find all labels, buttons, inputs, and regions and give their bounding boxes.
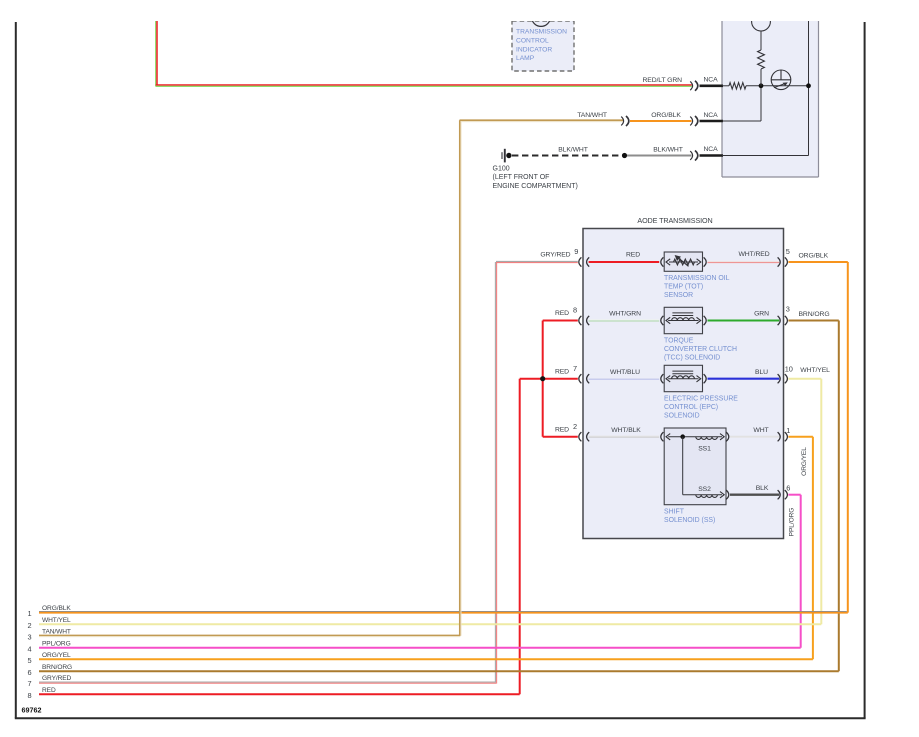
svg-text:SOLENOID: SOLENOID xyxy=(664,413,700,420)
svg-text:BLK/WHT: BLK/WHT xyxy=(653,147,683,154)
svg-text:2: 2 xyxy=(573,422,577,431)
svg-text:5: 5 xyxy=(27,656,31,665)
svg-text:INDICATOR: INDICATOR xyxy=(516,46,552,53)
svg-text:WHT/YEL: WHT/YEL xyxy=(42,617,71,624)
svg-text:WHT/YEL: WHT/YEL xyxy=(800,367,830,374)
svg-text:WHT/BLU: WHT/BLU xyxy=(610,369,640,376)
svg-text:10: 10 xyxy=(785,365,793,374)
svg-text:2: 2 xyxy=(27,621,31,630)
svg-text:GRY/RED: GRY/RED xyxy=(42,675,72,682)
svg-text:NCA: NCA xyxy=(704,77,719,84)
svg-text:1: 1 xyxy=(27,609,31,618)
svg-text:(TCC) SOLENOID: (TCC) SOLENOID xyxy=(664,355,720,362)
svg-text:CONTROL: CONTROL xyxy=(516,38,549,45)
svg-text:6: 6 xyxy=(27,668,31,677)
svg-text:7: 7 xyxy=(573,364,577,373)
svg-text:ORG/BLK: ORG/BLK xyxy=(799,253,829,260)
svg-text:ELECTRIC PRESSURE: ELECTRIC PRESSURE xyxy=(664,396,738,403)
svg-text:RED: RED xyxy=(626,252,640,259)
svg-text:8: 8 xyxy=(27,691,31,700)
svg-text:GRY/RED: GRY/RED xyxy=(540,252,570,259)
svg-text:TAN/WHT: TAN/WHT xyxy=(577,112,607,119)
svg-text:ORG/BLK: ORG/BLK xyxy=(42,605,71,612)
svg-text:BLU: BLU xyxy=(755,369,768,376)
svg-text:ORG/YEL: ORG/YEL xyxy=(42,652,71,659)
svg-text:BLK/WHT: BLK/WHT xyxy=(558,147,588,154)
svg-text:TORQUE: TORQUE xyxy=(664,337,694,344)
svg-text:5: 5 xyxy=(786,247,790,256)
svg-text:1: 1 xyxy=(786,426,790,435)
svg-text:AODE TRANSMISSION: AODE TRANSMISSION xyxy=(637,216,712,225)
svg-text:7: 7 xyxy=(27,679,31,688)
svg-text:ENGINE COMPARTMENT): ENGINE COMPARTMENT) xyxy=(493,183,578,190)
svg-text:WHT/RED: WHT/RED xyxy=(738,251,769,258)
svg-text:NCA: NCA xyxy=(704,146,719,153)
svg-text:TAN/WHT: TAN/WHT xyxy=(42,628,71,635)
svg-text:GRN: GRN xyxy=(754,311,769,318)
svg-text:SS1: SS1 xyxy=(698,445,711,452)
svg-text:CONVERTER CLUTCH: CONVERTER CLUTCH xyxy=(664,346,737,353)
svg-text:TRANSMISSION: TRANSMISSION xyxy=(516,29,567,36)
svg-text:LAMP: LAMP xyxy=(516,55,535,62)
svg-text:(LEFT FRONT OF: (LEFT FRONT OF xyxy=(493,174,550,181)
svg-text:4: 4 xyxy=(27,644,31,653)
svg-text:NCA: NCA xyxy=(704,112,719,119)
svg-text:6: 6 xyxy=(786,484,790,493)
svg-text:RED: RED xyxy=(42,687,56,694)
svg-text:PPL/ORG: PPL/ORG xyxy=(788,508,795,537)
svg-text:9: 9 xyxy=(574,247,578,256)
svg-text:WHT: WHT xyxy=(753,427,768,434)
svg-text:SENSOR: SENSOR xyxy=(664,292,693,299)
svg-text:SS2: SS2 xyxy=(698,486,711,493)
svg-text:WHT/BLK: WHT/BLK xyxy=(611,427,641,434)
svg-text:ORG/YEL: ORG/YEL xyxy=(801,447,808,476)
svg-text:BLK: BLK xyxy=(756,485,769,492)
svg-text:G100: G100 xyxy=(493,166,510,173)
svg-text:BRN/ORG: BRN/ORG xyxy=(42,664,72,671)
svg-text:CONTROL (EPC): CONTROL (EPC) xyxy=(664,404,718,411)
svg-text:ORG/BLK: ORG/BLK xyxy=(651,112,681,119)
svg-text:RED: RED xyxy=(555,310,569,317)
svg-text:8: 8 xyxy=(573,306,577,315)
svg-text:SHIFT: SHIFT xyxy=(664,509,685,516)
svg-text:RED: RED xyxy=(555,368,569,375)
svg-text:BRN/ORG: BRN/ORG xyxy=(799,311,830,318)
svg-text:SOLENOID (SS): SOLENOID (SS) xyxy=(664,517,715,524)
svg-text:69762: 69762 xyxy=(22,706,42,715)
svg-text:RED/LT GRN: RED/LT GRN xyxy=(642,77,682,84)
svg-text:PPL/ORG: PPL/ORG xyxy=(42,640,71,647)
svg-text:TEMP (TOT): TEMP (TOT) xyxy=(664,284,703,291)
svg-text:WHT/GRN: WHT/GRN xyxy=(609,311,641,318)
svg-text:TRANSMISSION OIL: TRANSMISSION OIL xyxy=(664,275,730,282)
svg-text:RED: RED xyxy=(555,426,569,433)
svg-text:3: 3 xyxy=(27,632,31,641)
svg-text:3: 3 xyxy=(786,305,790,314)
